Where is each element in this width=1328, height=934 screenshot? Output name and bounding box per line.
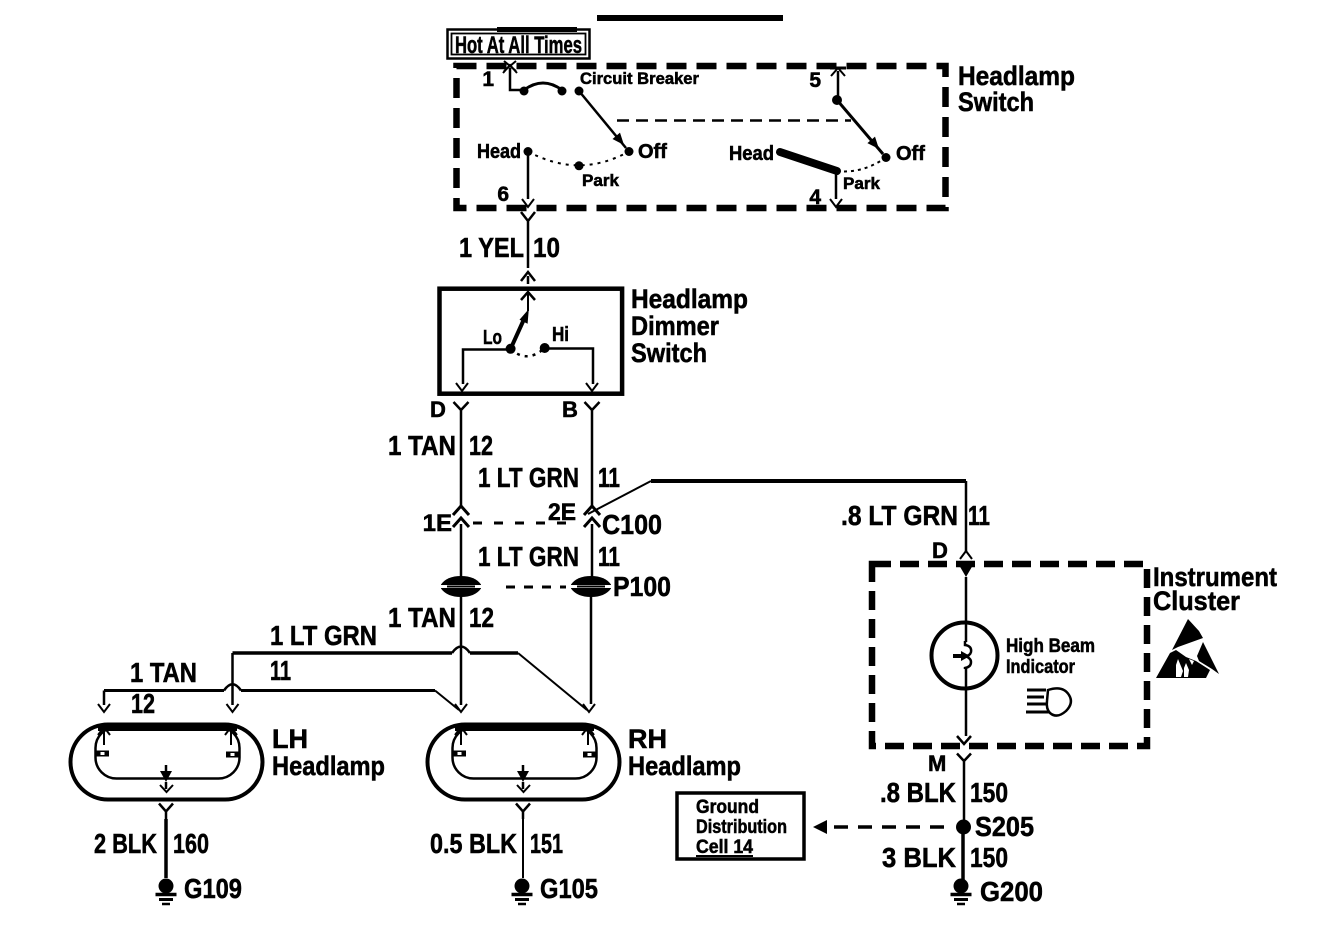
svg-text:6: 6: [497, 183, 509, 206]
svg-text:Cluster: Cluster: [1153, 586, 1240, 616]
svg-text:Headlamp: Headlamp: [631, 284, 748, 314]
svg-text:Off: Off: [896, 143, 925, 165]
svg-text:Park: Park: [843, 174, 881, 193]
svg-text:2E: 2E: [548, 499, 576, 526]
svg-text:151: 151: [530, 828, 563, 859]
svg-text:Off: Off: [638, 141, 667, 163]
svg-text:1 TAN: 1 TAN: [388, 602, 456, 633]
svg-text:G200: G200: [980, 876, 1043, 907]
svg-text:Ground: Ground: [696, 797, 759, 818]
svg-text:1: 1: [482, 68, 494, 91]
svg-text:.8 LT GRN: .8 LT GRN: [841, 500, 958, 531]
svg-text:P100: P100: [613, 571, 671, 602]
svg-text:D: D: [430, 397, 446, 422]
svg-text:High Beam: High Beam: [1006, 636, 1095, 657]
svg-text:1 YEL: 1 YEL: [459, 232, 524, 263]
svg-text:.8 BLK: .8 BLK: [880, 777, 956, 808]
svg-text:Indicator: Indicator: [1006, 657, 1076, 678]
svg-text:Park: Park: [582, 171, 620, 190]
svg-text:1E: 1E: [423, 510, 452, 537]
svg-text:Lo: Lo: [483, 327, 502, 349]
svg-text:1 LT GRN: 1 LT GRN: [478, 462, 579, 493]
svg-text:1 LT GRN: 1 LT GRN: [270, 620, 377, 651]
svg-text:2 BLK: 2 BLK: [94, 828, 157, 859]
svg-text:S205: S205: [975, 811, 1034, 842]
svg-text:11: 11: [598, 462, 620, 493]
svg-text:150: 150: [970, 842, 1008, 873]
svg-text:LH: LH: [272, 724, 308, 754]
svg-text:Cell 14: Cell 14: [696, 837, 753, 858]
svg-text:G105: G105: [540, 873, 598, 904]
svg-text:Switch: Switch: [631, 338, 707, 368]
svg-text:5: 5: [809, 69, 821, 92]
svg-text:1 LT GRN: 1 LT GRN: [478, 541, 579, 572]
svg-text:12: 12: [469, 602, 494, 633]
svg-text:Hi: Hi: [552, 324, 569, 346]
svg-text:11: 11: [270, 655, 291, 686]
svg-text:Head: Head: [729, 143, 774, 165]
svg-text:D: D: [932, 538, 948, 563]
svg-text:Dimmer: Dimmer: [631, 311, 719, 341]
svg-text:Headlamp: Headlamp: [272, 751, 385, 781]
svg-text:12: 12: [131, 688, 155, 719]
svg-text:B: B: [562, 397, 578, 422]
svg-text:1 TAN: 1 TAN: [388, 430, 456, 461]
svg-text:Circuit Breaker: Circuit Breaker: [580, 69, 699, 88]
svg-text:1 TAN: 1 TAN: [130, 657, 197, 688]
svg-text:3 BLK: 3 BLK: [882, 842, 956, 873]
svg-text:160: 160: [173, 828, 209, 859]
svg-text:Switch: Switch: [958, 87, 1034, 117]
svg-text:11: 11: [598, 541, 620, 572]
svg-text:11: 11: [968, 500, 990, 531]
svg-text:M: M: [928, 751, 946, 776]
svg-text:Head: Head: [477, 141, 521, 163]
svg-text:RH: RH: [628, 724, 667, 754]
svg-text:C100: C100: [602, 509, 662, 540]
svg-text:12: 12: [469, 430, 493, 461]
svg-text:10: 10: [533, 232, 560, 263]
svg-text:G109: G109: [184, 873, 242, 904]
svg-text:4: 4: [809, 186, 821, 209]
svg-text:0.5 BLK: 0.5 BLK: [430, 828, 517, 859]
svg-text:Headlamp: Headlamp: [628, 751, 741, 781]
svg-text:Distribution: Distribution: [696, 817, 787, 838]
svg-text:Hot At All Times: Hot At All Times: [455, 32, 582, 59]
svg-text:150: 150: [970, 777, 1008, 808]
